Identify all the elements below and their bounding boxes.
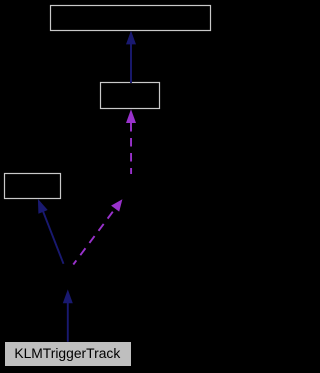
svg-text:KLMTriggerTrack: KLMTriggerTrack bbox=[14, 345, 120, 361]
